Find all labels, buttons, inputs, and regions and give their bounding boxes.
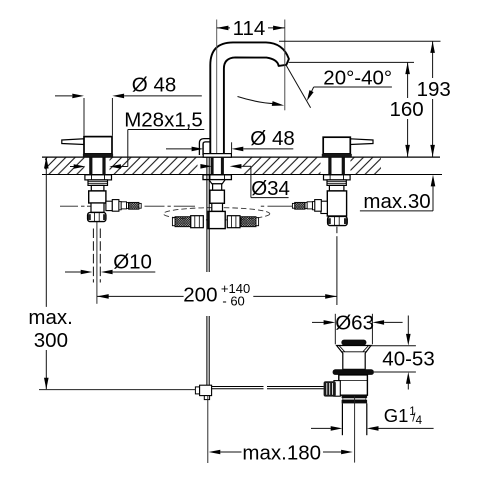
dim max.180 <box>209 442 353 465</box>
svg-text:M28x1,5: M28x1,5 <box>124 109 203 132</box>
right handle valve body <box>327 191 346 216</box>
right handle body <box>323 137 350 154</box>
spout body outline <box>210 42 289 156</box>
drain pop-up plug dome <box>341 340 366 346</box>
svg-text:max.30: max.30 <box>363 190 430 213</box>
right handle thread block <box>327 180 346 186</box>
drain seat taper <box>337 346 371 370</box>
deck hatch segment 4 <box>351 158 382 175</box>
right handle port <box>321 201 327 213</box>
dim 114 <box>217 17 285 40</box>
deck hatch left segment <box>45 158 85 175</box>
horizontal pop-up rod <box>212 386 264 388</box>
svg-text:160: 160 <box>389 98 423 121</box>
dim Ø34 <box>200 164 290 200</box>
label G1 1/4 <box>311 405 434 431</box>
spout adapter <box>212 203 223 211</box>
drain body <box>339 375 368 395</box>
lift rod upper segment <box>206 157 208 272</box>
dim 200 +140/-60 <box>97 281 337 308</box>
tee left hose tip <box>172 218 175 226</box>
svg-text:40-53: 40-53 <box>382 348 434 371</box>
dim 40-53 <box>370 316 435 390</box>
right handle braided hose <box>295 202 305 209</box>
svg-text:Ø63: Ø63 <box>335 311 374 334</box>
hose axis dash-dot centerline <box>60 205 292 207</box>
right handle bottom nut <box>328 216 348 225</box>
drain centerline <box>354 396 356 463</box>
left handle body <box>84 137 112 154</box>
spout centerline / 114 extension <box>216 20 218 154</box>
svg-text:114: 114 <box>233 17 266 40</box>
left handle port <box>106 201 112 210</box>
drain tailpipe <box>341 403 343 435</box>
dim 160 <box>289 62 424 156</box>
dim 20°-40° <box>307 66 392 101</box>
right handle flange nut <box>324 175 351 180</box>
left handle valve body <box>89 191 106 203</box>
deck top line <box>42 156 440 158</box>
rod junction fitting <box>195 387 199 394</box>
tee left hose nut <box>191 216 204 228</box>
right handle hose ring <box>312 202 314 210</box>
left handle neck <box>91 185 104 191</box>
right handle hose piece <box>307 202 312 209</box>
tee right hose tip <box>256 218 259 226</box>
left handle thread block <box>88 180 108 186</box>
dim 193 <box>279 41 451 156</box>
label max.30 <box>360 175 435 214</box>
right handle supply dashes <box>336 227 338 234</box>
tee left braided hose <box>175 217 191 227</box>
svg-text:Ø34: Ø34 <box>251 177 290 200</box>
left handle flange nut <box>85 175 112 180</box>
svg-text:max.180: max.180 <box>242 442 321 465</box>
water stream diagonal <box>286 65 311 108</box>
left handle shank walls <box>89 157 92 174</box>
spout outlet extension line <box>284 20 286 111</box>
svg-text:Ø 48: Ø 48 <box>132 73 176 96</box>
lift rod lower segment <box>206 316 208 385</box>
drain rod port <box>334 381 340 397</box>
deck bottom line <box>42 174 442 176</box>
left handle hose ring <box>119 202 121 210</box>
label M28x1,5 <box>70 109 204 169</box>
left handle lever <box>62 139 84 145</box>
deck hatch segment 2 <box>110 158 198 175</box>
spout shank wall left <box>211 157 214 174</box>
drain nut bands <box>342 395 368 398</box>
drain o-ring <box>333 369 374 375</box>
dim Ø48 left <box>55 73 202 136</box>
drain knurled knob <box>324 381 336 396</box>
right handle shank walls <box>328 157 331 174</box>
right handle base band <box>322 154 352 157</box>
spout mounting nut <box>203 175 231 180</box>
svg-text:Ø10: Ø10 <box>113 250 152 273</box>
dim Ø48 center <box>166 127 295 154</box>
tee right hose nut <box>227 216 240 228</box>
deck hatch segment 3 <box>243 158 321 175</box>
dim max.300 <box>28 157 72 390</box>
right handle hose ring 2 <box>305 203 307 209</box>
left handle base band <box>83 154 113 157</box>
svg-text:G1: G1 <box>384 405 409 426</box>
right handle hose nut <box>315 200 322 212</box>
swivel-range dashed ellipse <box>163 208 269 220</box>
left handle bottom nut <box>88 212 106 221</box>
right handle neck <box>329 185 344 191</box>
spout shank bevel <box>209 180 225 184</box>
supply pipe centerline <box>96 222 98 304</box>
spout shank neck <box>213 184 222 190</box>
right handle lever <box>350 139 373 145</box>
lift rod knob hook <box>199 139 210 155</box>
supply pipe dashed left <box>92 229 94 283</box>
reference line to drain <box>39 389 195 391</box>
left handle hose tip <box>139 203 141 208</box>
spout valve body <box>210 190 225 203</box>
left handle hose nut <box>112 200 119 212</box>
left handle valve lower <box>91 203 104 212</box>
svg-text:300: 300 <box>34 329 68 352</box>
swivel arc arrow <box>238 97 285 106</box>
spout escutcheon flange <box>203 154 231 158</box>
spout tee block <box>208 211 225 228</box>
rod lower centerline <box>207 396 209 463</box>
left handle hose piece <box>121 202 126 209</box>
tee right braided hose <box>241 217 256 227</box>
svg-text:200: 200 <box>183 284 217 307</box>
left handle braided hose <box>129 202 139 209</box>
svg-text:max.: max. <box>28 306 72 329</box>
svg-text:Ø 48: Ø 48 <box>250 127 294 150</box>
dim Ø10 <box>65 250 155 274</box>
dim Ø63 <box>312 311 403 344</box>
left handle hose ring 2 <box>127 203 129 209</box>
svg-text:- 60: - 60 <box>222 294 244 309</box>
right handle hose tip <box>292 203 294 208</box>
spout shank wall right <box>221 157 224 174</box>
svg-text:4: 4 <box>416 415 423 427</box>
svg-text:20°-40°: 20°-40° <box>323 66 392 89</box>
